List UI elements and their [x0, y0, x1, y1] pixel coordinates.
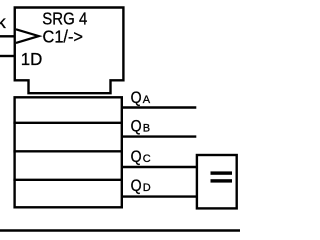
- wire output QD: [122, 195, 197, 197]
- wire clock input: [0, 35, 16, 37]
- wire output QA: [122, 106, 197, 108]
- register array (4 cells): [15, 97, 122, 207]
- svg-text:C: C: [143, 153, 151, 165]
- shift register U1 common control block SRG 4: [15, 8, 124, 94]
- wire output QB: [122, 135, 197, 137]
- svg-text:Q: Q: [131, 89, 142, 107]
- svg-text:B: B: [143, 122, 150, 134]
- wire feedback (bottom): [0, 229, 240, 232]
- svg-text:Q: Q: [131, 148, 142, 166]
- svg-text:A: A: [143, 94, 151, 106]
- wire output QC: [122, 166, 197, 168]
- svg-text:SRG 4: SRG 4: [42, 8, 87, 28]
- cell divider 1: [13, 122, 123, 124]
- svg-text:Clk: Clk: [0, 12, 6, 32]
- svg-text:C1/->: C1/->: [43, 27, 84, 47]
- svg-text:Q: Q: [131, 117, 142, 135]
- wire serial data input 1D: [0, 55, 16, 57]
- cell divider 2: [13, 150, 123, 152]
- cell divider 3: [13, 179, 123, 181]
- dynamic clock input triangle C1: [16, 29, 39, 43]
- svg-text:Q: Q: [131, 177, 142, 195]
- equals sign bar 2: [211, 179, 233, 182]
- XNOR equality comparator U2 box: [197, 155, 237, 208]
- equals sign bar 1: [211, 171, 233, 174]
- svg-text:D: D: [143, 182, 151, 194]
- svg-text:1D: 1D: [21, 49, 43, 69]
